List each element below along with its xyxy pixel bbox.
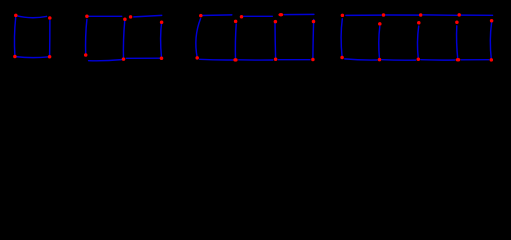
lattice dot S2 top-middle right xyxy=(129,15,133,19)
lattice dot S2 top-middle left xyxy=(123,17,127,21)
lattice dot S3 bottom junction2 xyxy=(274,58,278,62)
squares S2a/S2b shared middle edge xyxy=(123,20,124,59)
lattice dot S4 bottom-right xyxy=(490,58,494,62)
square S3c right edge xyxy=(312,20,315,60)
square S2b bottom edge xyxy=(126,57,161,59)
lattice dot S3 bottom-right xyxy=(311,58,315,62)
lattice dot S3 top junction1 upper xyxy=(240,15,244,19)
square S3a left edge xyxy=(196,19,201,58)
lattice dot S4 top junction3 lower xyxy=(455,21,459,25)
square S1 right edge xyxy=(49,21,51,57)
lattice dot S3 top-right xyxy=(312,20,316,24)
square S3c bottom edge xyxy=(278,59,310,61)
lattice dot S4 top junction2 upper xyxy=(419,13,423,17)
square S3b bottom edge xyxy=(239,59,273,61)
lattice dot S2 bottom-left xyxy=(84,53,88,57)
square S4d bottom edge xyxy=(461,59,489,61)
lattice dot S4 top junction1 lower xyxy=(378,22,382,26)
square S4c top edge xyxy=(423,14,457,16)
squares S3b/S3c shared middle edge xyxy=(274,23,277,60)
lattice dot S1 bottom-left xyxy=(13,55,17,59)
squares S3a/S3b shared middle edge xyxy=(234,24,237,60)
square S4d top edge xyxy=(462,14,493,16)
square S4a top edge xyxy=(346,14,381,16)
square S1 top edge xyxy=(16,16,47,18)
square S2b top edge xyxy=(134,15,162,17)
lattice dot S2 bottom-middle xyxy=(122,57,126,61)
square S1 left edge xyxy=(14,18,15,57)
lattice dot S3 top junction2 upper (wide) xyxy=(278,13,283,17)
square S3a bottom edge xyxy=(200,58,233,61)
lattice dot S4 top-left xyxy=(341,14,345,18)
lattice dot S3 top junction1 lower xyxy=(234,20,238,24)
lattice dot S3 bottom junction1 xyxy=(233,58,237,62)
lattice dot S4 top junction3 upper xyxy=(457,13,461,17)
lattice dot S4 bottom junction2 xyxy=(417,58,421,62)
lattice dot S2 bottom-right xyxy=(160,56,164,60)
lattice dot S4 top junction1 upper xyxy=(382,13,386,17)
lattice dot S1 top-right xyxy=(48,16,52,20)
lattice dot S1 top-left xyxy=(14,14,17,18)
lattice dot S4 top junction2 lower xyxy=(417,21,421,25)
square S2b right edge xyxy=(161,22,162,58)
lattice dot S4 bottom junction1 xyxy=(378,58,382,62)
square S4b top edge xyxy=(386,14,419,16)
square S1 bottom edge xyxy=(16,57,50,58)
square S2a left edge xyxy=(86,19,87,54)
lattice dot S2 top-right xyxy=(160,20,164,24)
squares S4b/S4c shared middle edge xyxy=(417,26,418,59)
square S3c top edge xyxy=(284,13,314,15)
lattice dot S4 top-right xyxy=(490,19,494,23)
lattice dot S3 top junction2 lower xyxy=(274,20,278,24)
square S2a bottom edge xyxy=(89,60,122,61)
square S4a bottom edge xyxy=(345,59,377,60)
square S4a left edge xyxy=(341,19,342,57)
square S3a top edge xyxy=(201,14,232,17)
lattice dot S4 bottom junction3 (wide) xyxy=(456,58,461,62)
square S4d right edge xyxy=(490,23,491,60)
squares S4a/S4b shared middle edge xyxy=(379,26,380,59)
squares S4c/S4d shared middle edge xyxy=(457,26,458,60)
lattice dot S2 top-left xyxy=(85,14,89,18)
square S3b top edge xyxy=(244,15,273,17)
square S2a top edge xyxy=(87,15,122,17)
square S4c bottom edge xyxy=(421,59,455,61)
lattice dot S3 top-left xyxy=(199,14,203,18)
lattice dot S3 bottom-left xyxy=(195,56,199,60)
square S4b bottom edge xyxy=(382,59,416,61)
lattice dot S1 bottom-right xyxy=(48,55,52,59)
lattice dot S4 bottom-left xyxy=(340,56,344,60)
